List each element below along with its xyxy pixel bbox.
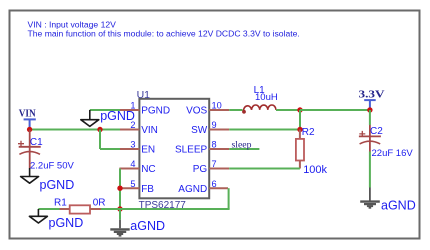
capacitor C2 <box>359 110 381 152</box>
U1 pin 2 VIN <box>119 120 157 136</box>
C1 value <box>30 160 74 171</box>
svg-text:aGND: aGND <box>130 219 165 233</box>
svg-text:C2: C2 <box>370 126 383 137</box>
svg-text:R1: R1 <box>54 197 67 208</box>
C2 value <box>372 148 414 159</box>
svg-text:8: 8 <box>212 140 217 150</box>
svg-text:U1: U1 <box>137 89 151 101</box>
annotation note text <box>28 19 300 38</box>
aGND label center <box>130 219 165 233</box>
U1 pin 1 PGND <box>119 101 170 117</box>
wire EN branch vertical <box>99 130 101 150</box>
pGND label below C1 <box>40 178 75 192</box>
svg-text:VIN: VIN <box>19 109 36 120</box>
svg-text:C1: C1 <box>30 137 43 148</box>
U1 pin 5 FB <box>119 179 154 195</box>
svg-text:NC: NC <box>141 164 155 175</box>
wire EN branch horizontal <box>100 148 120 150</box>
svg-text:SLEEP: SLEEP <box>175 145 208 156</box>
ground pGND at R1 <box>29 209 47 223</box>
svg-text:7: 7 <box>212 159 217 169</box>
power port VIN <box>19 109 36 130</box>
svg-text:10: 10 <box>212 101 222 111</box>
U1 value TPS62177 <box>139 200 187 211</box>
svg-text:aGND: aGND <box>381 199 416 213</box>
svg-text:9: 9 <box>212 120 217 130</box>
wire output node to 3.3V port <box>300 109 370 111</box>
wire SLEEP <box>229 148 259 150</box>
svg-text:VIN: VIN <box>141 125 158 136</box>
U1 pin 4 NC <box>119 159 155 175</box>
svg-text:10uH: 10uH <box>255 92 278 103</box>
junction R1/aGND node <box>117 206 122 211</box>
ground aGND center <box>110 209 129 236</box>
wire VIN to pin 2 <box>30 129 120 131</box>
ground pGND at pin 1 <box>81 110 99 126</box>
wire NC/FB vertical <box>119 169 121 210</box>
svg-text:PGND: PGND <box>141 106 170 117</box>
svg-text:4: 4 <box>130 159 135 169</box>
wire C2 to ground <box>369 152 371 188</box>
svg-text:sleep: sleep <box>232 141 252 151</box>
R1 value 0R <box>93 197 106 208</box>
ground aGND right <box>360 188 380 208</box>
svg-text:AGND: AGND <box>178 184 207 195</box>
wire SW pin to R2 node <box>229 129 300 131</box>
junction VIN/EN branch <box>97 127 102 132</box>
R2 designator <box>302 127 315 138</box>
U1 pin 6 AGND <box>178 179 228 195</box>
svg-text:VOS: VOS <box>186 106 207 117</box>
pGND label at pin 1 <box>100 109 135 123</box>
U1 designator <box>137 89 151 101</box>
junction output/SW node top <box>297 107 302 112</box>
svg-text:0R: 0R <box>93 197 106 208</box>
power port 3.3V <box>359 88 385 110</box>
svg-text:100k: 100k <box>303 164 327 176</box>
junction output/C2 node <box>367 107 372 112</box>
U1 pin 7 PG <box>193 159 229 175</box>
L1 value 10uH <box>255 92 278 103</box>
capacitor C1 <box>18 130 41 169</box>
svg-text:The main function of this modu: The main function of this module: to ach… <box>28 29 300 39</box>
R1 designator <box>54 197 67 208</box>
svg-text:FB: FB <box>141 184 154 195</box>
svg-text:R2: R2 <box>302 127 315 138</box>
svg-text:3.3V: 3.3V <box>359 88 385 100</box>
pGND label at R1 <box>49 216 84 230</box>
C2 designator <box>370 126 383 137</box>
svg-text:pGND: pGND <box>40 178 75 192</box>
U1 pin 10 VOS <box>186 101 229 117</box>
inductor L1 <box>242 105 276 114</box>
wire R1 left to ground <box>38 208 59 210</box>
R2 value 100k <box>303 164 327 176</box>
U1 pin 8 SLEEP <box>175 140 229 156</box>
svg-text:SW: SW <box>191 125 208 136</box>
svg-text:22uF 16V: 22uF 16V <box>372 148 414 159</box>
wire vertical output to SW node <box>299 110 301 130</box>
L1 designator <box>254 85 266 96</box>
junction SW/R2 node <box>297 127 302 132</box>
C1 designator <box>30 137 43 148</box>
svg-text:5: 5 <box>130 179 135 189</box>
svg-text:EN: EN <box>141 145 155 156</box>
ground pGND below C1 <box>21 168 39 183</box>
U1 pin 9 SW <box>191 120 229 136</box>
svg-text:3: 3 <box>130 140 135 150</box>
svg-text:pGND: pGND <box>49 216 84 230</box>
junction FB node <box>117 186 122 191</box>
wire inductor to output node <box>276 109 300 111</box>
wire AGND pin routing <box>120 188 230 209</box>
wire VOS to inductor <box>229 109 242 111</box>
wire R1 right to junction <box>101 208 120 210</box>
svg-text:PG: PG <box>193 164 208 175</box>
U1 pin 3 EN <box>119 140 155 156</box>
resistor R1 <box>60 205 102 213</box>
svg-text:pGND: pGND <box>100 109 135 123</box>
svg-text:2.2uF 50V: 2.2uF 50V <box>30 160 74 171</box>
svg-text:6: 6 <box>212 179 217 189</box>
junction VIN/C1 <box>27 127 32 132</box>
wire pin1 to pGND <box>90 109 120 111</box>
aGND label right <box>381 199 416 213</box>
op-amp U1 body (TPS62177 regulator) <box>139 99 209 199</box>
wire PG to R2 <box>229 168 300 170</box>
resistor R2 <box>296 130 304 169</box>
net label sleep <box>232 141 252 151</box>
